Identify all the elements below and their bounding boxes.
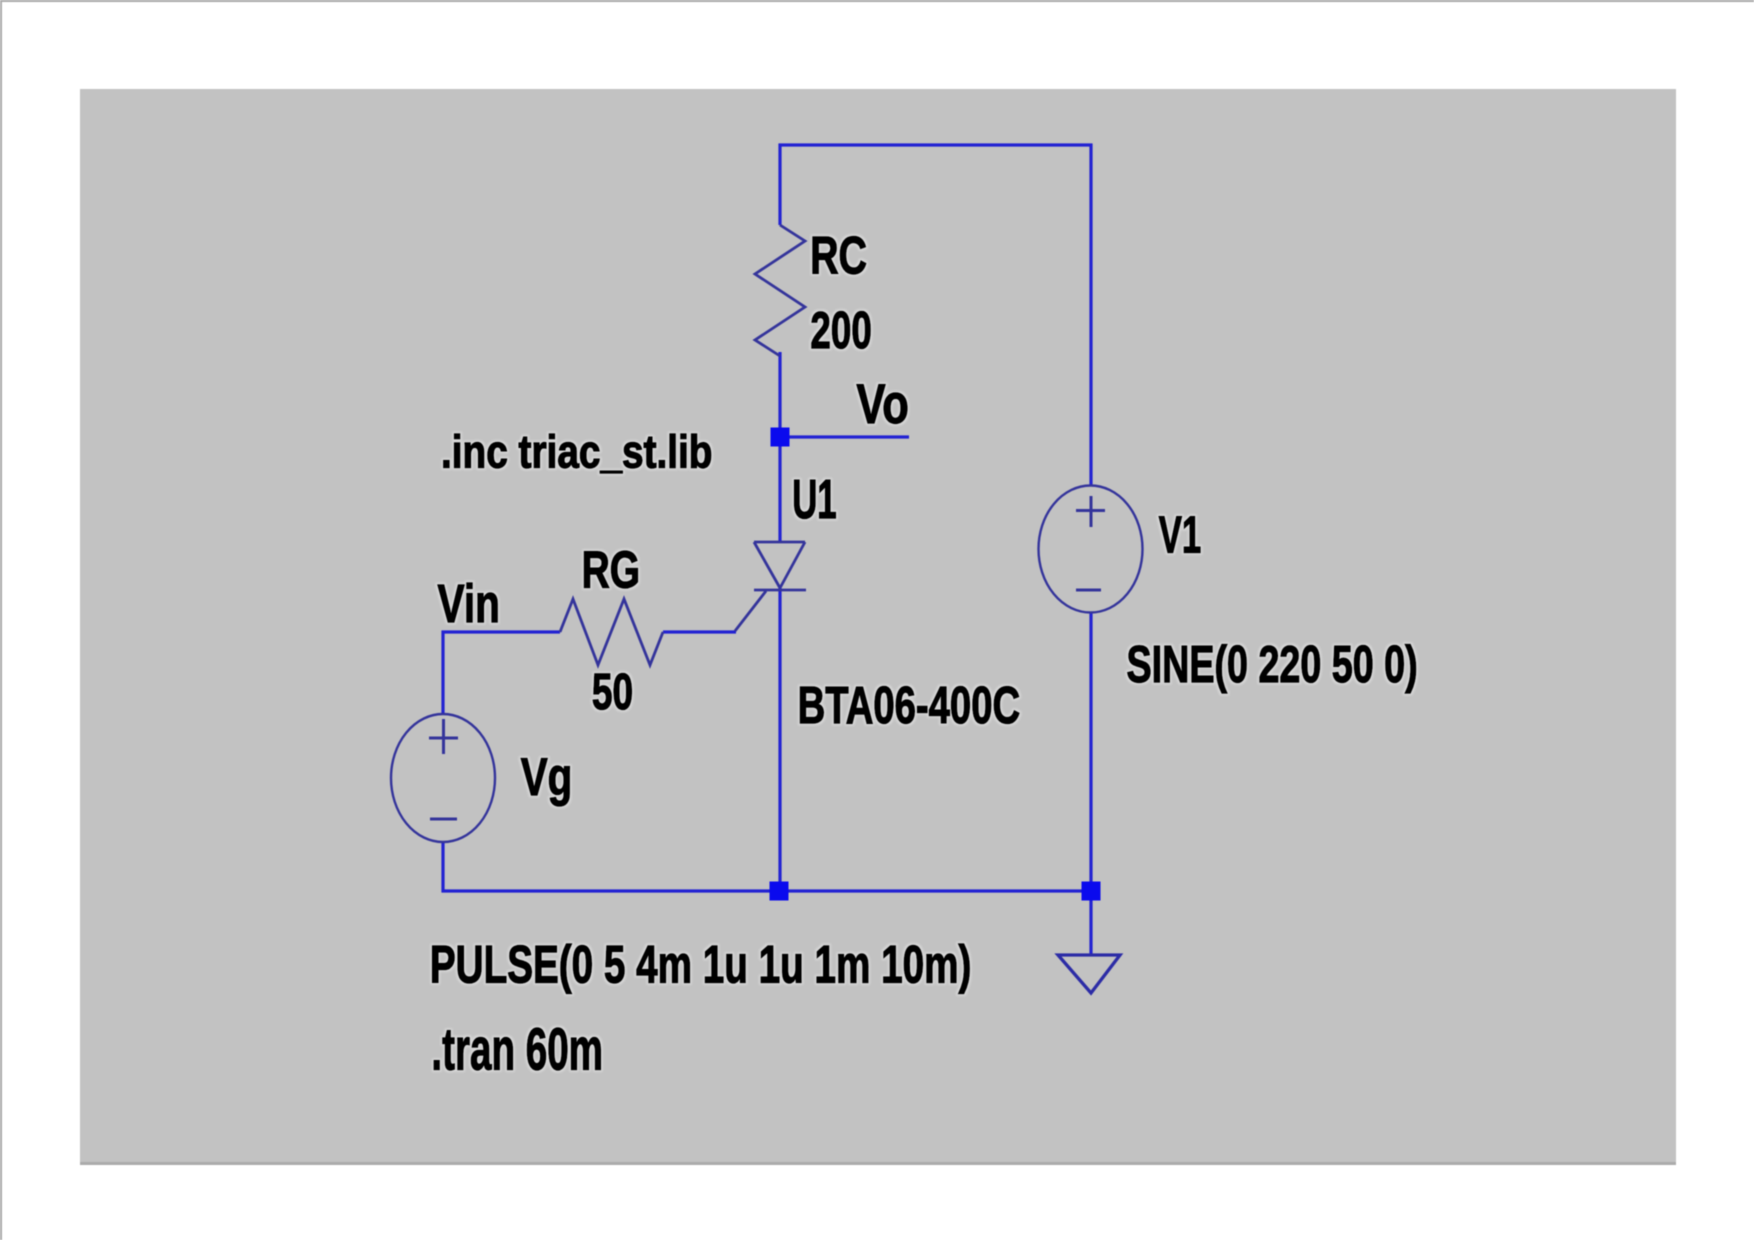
wire: RC bottom lead to Vo node xyxy=(778,352,781,437)
svg-text:SINE(0 220 50 0): SINE(0 220 50 0) xyxy=(1127,636,1418,694)
triac U1 xyxy=(735,542,806,631)
page left border line xyxy=(0,0,2,1240)
svg-text:RC: RC xyxy=(810,227,867,286)
svg-text:Vin: Vin xyxy=(438,574,500,634)
svg-text:Vg: Vg xyxy=(521,748,573,807)
svg-text:Vo: Vo xyxy=(857,372,909,435)
resistor RG xyxy=(560,599,663,665)
wire: triac cathode down to bottom bus xyxy=(778,588,781,891)
wire: Vo tap stub xyxy=(780,435,909,438)
svg-text:50: 50 xyxy=(592,663,633,720)
wire: Vg bottom lead xyxy=(441,842,444,893)
bottom bus junction at triac xyxy=(770,882,789,901)
svg-text:PULSE(0 5 4m 1u 1u 1m 10m): PULSE(0 5 4m 1u 1u 1m 10m) xyxy=(430,936,972,995)
wire: bottom ground bus xyxy=(442,889,1092,892)
resistor RC xyxy=(755,225,805,356)
wire: RC top lead xyxy=(778,144,781,226)
svg-text:U1: U1 xyxy=(792,469,836,530)
canvas bottom shadow edge xyxy=(80,1162,1676,1165)
svg-text:.tran 60m: .tran 60m xyxy=(431,1017,603,1083)
svg-text:V1: V1 xyxy=(1159,506,1202,564)
ground xyxy=(1058,955,1120,993)
svg-text:200: 200 xyxy=(810,302,871,360)
voltage source Vg xyxy=(391,714,495,842)
schematic gray canvas xyxy=(80,89,1676,1165)
svg-text:BTA06-400C: BTA06-400C xyxy=(798,677,1021,735)
page top border line xyxy=(0,0,1754,2)
wire: Vin horizontal to RG xyxy=(442,630,561,633)
voltage source V1 xyxy=(1039,486,1143,613)
svg-text:.inc triac_st.lib: .inc triac_st.lib xyxy=(441,426,713,478)
node Vo junction xyxy=(771,428,790,447)
wire: ground lead xyxy=(1089,891,1092,955)
wire: V1 bottom lead xyxy=(1089,613,1092,891)
wire: Vo node down to triac anode xyxy=(778,437,781,542)
wire: V1 top lead xyxy=(1089,144,1092,486)
svg-text:RG: RG xyxy=(582,541,640,599)
wire: Vin vertical down to Vg xyxy=(441,631,444,715)
wire: gate horizontal from RG xyxy=(663,630,736,633)
bottom bus junction at V1/ground xyxy=(1082,882,1101,901)
wire: top bus from RC to V1 xyxy=(779,143,1093,146)
